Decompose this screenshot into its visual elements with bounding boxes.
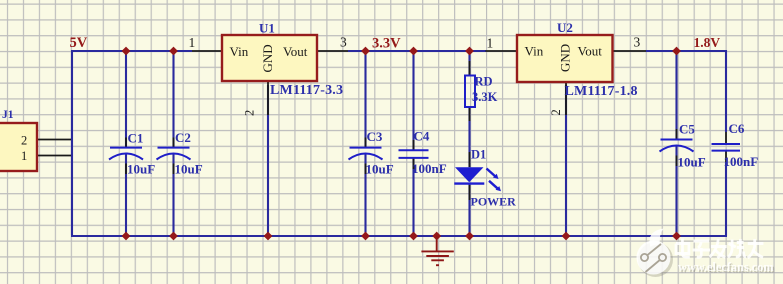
svg-text:U1: U1 [259,21,275,36]
svg-text:LM1117-1.8: LM1117-1.8 [565,84,638,99]
svg-text:100nF: 100nF [412,161,447,176]
svg-text:100nF: 100nF [724,154,759,169]
svg-text:1: 1 [21,149,27,163]
svg-text:U2: U2 [557,20,573,35]
svg-text:C6: C6 [729,121,745,136]
svg-text:C2: C2 [175,130,191,145]
svg-text:Vin: Vin [230,44,249,59]
svg-text:LM1117-3.3: LM1117-3.3 [270,83,343,98]
svg-text:3.3K: 3.3K [472,90,498,104]
svg-text:GND: GND [260,44,275,72]
svg-text:GND: GND [558,44,573,72]
svg-text:C3: C3 [367,129,383,144]
svg-text:10uF: 10uF [175,162,203,177]
svg-text:2: 2 [243,110,257,116]
svg-text:3.3V: 3.3V [372,36,401,52]
svg-text:2: 2 [21,134,27,148]
svg-text:C4: C4 [414,129,430,144]
svg-text:1.8V: 1.8V [694,35,721,50]
svg-text:D1: D1 [471,148,486,162]
svg-text:C1: C1 [128,131,144,146]
svg-text:RD: RD [475,75,493,89]
svg-text:1: 1 [487,36,494,51]
svg-text:1: 1 [189,35,196,50]
svg-text:5V: 5V [70,35,88,51]
svg-text:3: 3 [340,35,347,50]
svg-text:10uF: 10uF [366,162,394,177]
svg-text:C5: C5 [679,122,695,137]
svg-text:Vin: Vin [525,44,544,59]
svg-text:10uF: 10uF [678,155,706,170]
svg-text:POWER: POWER [471,195,517,209]
svg-text:www.elecfans.com: www.elecfans.com [678,260,774,274]
svg-text:Vout: Vout [283,44,308,59]
svg-text:3: 3 [634,35,641,50]
svg-text:10uF: 10uF [127,162,155,177]
svg-text:2: 2 [549,109,563,115]
svg-text:Vout: Vout [578,44,603,59]
svg-text:J1: J1 [2,109,14,121]
